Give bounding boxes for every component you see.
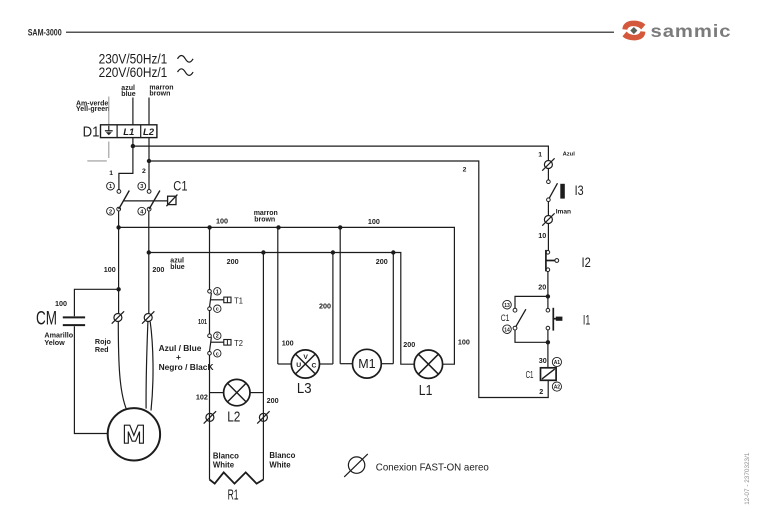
AC sine symbol 1 [178,56,194,63]
svg-text:c: c [216,351,219,357]
node L3-right tap [331,250,335,254]
terminal block D1 [83,124,157,141]
svg-text:T1: T1 [234,296,243,306]
svg-text:blue: blue [170,264,184,271]
svg-text:Red: Red [95,345,109,354]
svg-text:C1: C1 [526,370,534,381]
motor M [108,408,160,460]
svg-text:200: 200 [376,257,388,266]
svg-text:13: 13 [504,303,510,309]
svg-text:V: V [303,354,308,361]
wire contact4 down (azul/negro) [148,211,150,313]
svg-text:Conexion FAST-ON aereo: Conexion FAST-ON aereo [376,461,489,473]
svg-text:12-07 - 2370323/1: 12-07 - 2370323/1 [744,452,751,505]
lamp L1 [414,350,442,399]
svg-text:220V/60Hz/1: 220V/60Hz/1 [99,65,168,80]
wire L2 right drop [262,253,264,480]
wire cap bottom to motor [74,326,107,433]
wire T2 down to R1 [209,355,211,479]
svg-text:Yelow: Yelow [44,338,65,347]
svg-text:blue: blue [121,91,135,98]
svg-text:2: 2 [463,167,467,174]
svg-text:C1: C1 [501,313,510,323]
svg-text:100: 100 [55,299,67,308]
magnet switch I3 [547,169,584,216]
svg-text:100: 100 [104,265,116,274]
svg-text:+: + [176,352,181,362]
node capacitor tap [116,287,120,291]
svg-text:Blanco: Blanco [213,452,239,461]
wire L1 lead-in [132,98,134,125]
svg-text:U: U [296,362,301,369]
svg-text:30: 30 [539,356,547,365]
wire I2 to junction [547,272,549,309]
svg-text:A1: A1 [554,360,561,366]
svg-text:200: 200 [227,257,239,266]
svg-text:A2: A2 [554,385,561,391]
FAST-ON below L2 left [204,411,216,423]
svg-text:L1: L1 [419,382,433,399]
wire bus 1 (to I3 chain) [133,146,549,160]
FAST-ON on azul/negro wire [142,311,154,323]
svg-text:M1: M1 [358,357,375,371]
lamp L2 [210,379,264,425]
contactor C1 main contacts [107,179,188,216]
wire aux branch top [515,296,548,308]
node aux branch top [546,294,550,298]
terminal circle 3 [138,182,146,190]
svg-text:L2: L2 [227,408,240,425]
FAST-ON on rojo wire [112,311,124,323]
terminal circle 1 [107,182,115,190]
svg-text:2: 2 [539,387,543,396]
FAST-ON below L2 right [257,411,269,423]
mechanical link [124,200,168,202]
terminal circle 2 [107,207,115,215]
svg-text:200: 200 [152,265,164,274]
node M1 tap [338,225,342,229]
svg-text:CM: CM [36,309,57,330]
contact pin 2 [117,207,121,211]
svg-text:100: 100 [368,217,380,226]
ground symbol in D1 [105,126,113,136]
terminal circle A2 [552,382,561,391]
FAST-ON below I3 [542,213,554,225]
terminal circle A1 [552,357,561,366]
wire L2 lead-in [148,98,150,125]
pushbutton I1 [546,308,590,331]
svg-text:200: 200 [319,302,331,311]
wire contact2 down to motor (rojo) [118,211,120,313]
node bus 200 start [147,250,151,254]
cap plate top [63,316,85,318]
wire earth continuation dashes (grey) [108,142,110,159]
svg-text:2: 2 [216,334,219,340]
thermal switch T2 [208,332,243,357]
svg-text:100: 100 [216,217,228,226]
svg-text:1: 1 [109,184,112,190]
svg-text:100: 100 [282,339,294,348]
wire bus 2 (return to coil A2) [149,161,548,398]
svg-text:L2: L2 [143,127,155,138]
svg-text:14: 14 [504,327,510,333]
contact pin 3 [147,190,151,194]
motor M1 [340,227,393,378]
blade pole 2 [149,191,160,210]
aux box symbol [168,196,176,204]
wire between T1 and T2 [209,311,211,334]
svg-text:2: 2 [142,168,146,175]
svg-text:3: 3 [140,184,143,190]
wire bus 200 [149,253,414,365]
svg-text:102: 102 [196,393,208,402]
wire bus 100 [119,227,455,364]
svg-text:200: 200 [403,340,415,349]
svg-text:I3: I3 [575,183,584,198]
svg-text:T2: T2 [234,338,243,348]
capacitor CM [36,289,119,433]
svg-text:sammic: sammic [651,21,732,41]
node L3 tap [276,225,280,229]
contact pin 1 [117,190,121,194]
svg-text:2: 2 [109,209,112,215]
sammic logo icon [622,21,645,41]
svg-text:Yell-green: Yell-green [76,106,109,113]
wire cap top to rojo node [74,289,118,316]
svg-text:White: White [213,460,235,469]
svg-text:1: 1 [216,289,219,295]
wire negro to motor [150,322,153,411]
svg-text:SAM-3000: SAM-3000 [28,27,62,37]
node bus2 tap [147,159,151,163]
header rule [66,31,614,33]
svg-text:L1: L1 [123,127,134,138]
svg-text:Iman: Iman [556,209,571,216]
aux contact C1 13/14 [501,300,526,333]
svg-text:D1: D1 [83,124,100,141]
thermal switch T1 [208,227,243,312]
blade pole 1 [119,191,130,210]
AC sine symbol 2 [178,69,194,76]
wire to I2 [547,224,549,251]
wire rojo curve into motor [118,322,126,410]
svg-text:Blanco: Blanco [269,451,295,460]
svg-text:1: 1 [538,152,542,159]
node aux branch bottom [546,340,550,344]
pushbutton I2 [546,250,591,272]
wire L2 from D1 down to contact 3 [148,138,150,190]
resistor R1 [210,472,264,483]
wire T-chain upper [209,227,211,289]
svg-text:Azul: Azul [563,152,576,158]
svg-text:100: 100 [458,337,470,346]
wire I1 to coil [547,330,549,368]
svg-text:20: 20 [538,283,546,292]
svg-text:10: 10 [538,231,546,240]
node bus 100 start [116,225,120,229]
contactor coil C1 [526,368,557,381]
svg-text:C: C [311,363,316,370]
svg-text:C1: C1 [173,179,187,194]
lamp L3 [278,227,333,397]
wire aux branch bottom [515,330,548,342]
svg-text:R1: R1 [228,487,239,503]
FAST-ON top of I3 chain [542,158,554,170]
svg-text:brown: brown [149,90,170,97]
node bus1 tap [131,144,135,148]
svg-text:L3: L3 [297,380,312,397]
cap plate bottom [63,324,85,326]
svg-text:c: c [216,307,219,313]
svg-text:Negro / BlacK: Negro / BlacK [159,362,214,372]
node M1-right tap [391,250,395,254]
svg-text:I1: I1 [583,313,590,328]
svg-text:I2: I2 [582,255,591,270]
svg-text:White: White [269,460,291,469]
node L2-right tap [261,250,265,254]
legend FAST-ON symbol [344,454,368,477]
terminal circle 4 [138,207,146,215]
node T-chain tap [207,225,211,229]
contact pin 4 [147,207,151,211]
wire I3 to FAST-ON [547,202,549,216]
svg-text:200: 200 [267,396,279,405]
svg-text:brown: brown [254,217,275,224]
svg-text:1: 1 [109,170,113,177]
svg-text:101: 101 [198,317,207,326]
wire earth lead-in (grey) [108,97,110,125]
wire azul to motor [146,322,148,409]
wire L1 from D1 down to contact 1 [119,138,133,190]
